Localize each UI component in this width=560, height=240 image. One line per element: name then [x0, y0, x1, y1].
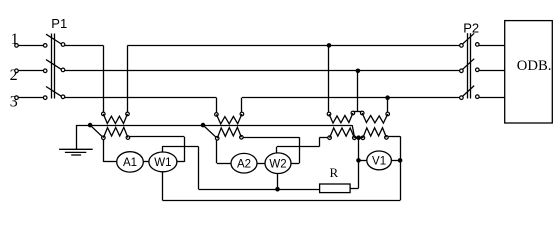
junction V1 right	[398, 158, 403, 163]
resistor R	[320, 184, 351, 193]
wire L3 lead	[18, 97, 43, 99]
wire CT2 sec right bus	[243, 137, 299, 139]
VT-b secondary terminal left	[361, 136, 365, 140]
wire VT-a primary drop	[328, 45, 330, 112]
wire R right	[350, 188, 358, 190]
junction W2 bottom	[275, 187, 280, 192]
wire VT-b sec right out	[388, 136, 400, 138]
wire W1 voltage bus	[162, 146, 199, 148]
wire CT1 primary right drop	[127, 45, 129, 112]
P1 pole3 contact	[61, 95, 65, 99]
ammeter A2	[231, 153, 257, 173]
VT-a secondary winding	[330, 128, 355, 138]
CT1 primary terminal right	[126, 112, 130, 116]
wire W2 right up	[299, 137, 301, 163]
wire W1 right	[177, 161, 185, 163]
wire row3 to CT2	[65, 97, 217, 99]
wire A2-W2	[257, 163, 265, 165]
wire bottom bus	[163, 200, 401, 202]
junction ground bus / CT1	[88, 123, 93, 128]
wire row2 to P2	[65, 70, 460, 72]
wire row1 to P2	[128, 45, 460, 47]
wattmeter W1	[149, 152, 177, 172]
wire W2 bottom down	[277, 174, 279, 190]
P2 pole2 contact	[476, 68, 480, 72]
wire W1 right up	[184, 137, 186, 162]
wire CT1 primary left drop	[103, 45, 105, 112]
wire L2 lead	[18, 70, 43, 72]
wire VT mid primary drop	[357, 71, 359, 112]
wire to VT-a sec left	[319, 137, 328, 139]
load box ODB	[505, 21, 553, 123]
P2 gang bar b	[470, 33, 472, 98]
wire to A1	[103, 161, 116, 163]
VT-a secondary terminal left	[328, 136, 332, 140]
P2 pole3 contact	[476, 95, 480, 99]
P1 gang bar a	[51, 34, 53, 99]
P2 pole1 pivot	[460, 44, 464, 48]
svg-text:W1: W1	[154, 157, 171, 169]
wattmeter W2	[265, 153, 291, 174]
P1 pole2 contact	[61, 68, 65, 72]
P2 gang bar a	[467, 33, 469, 98]
wire ground drop	[76, 125, 78, 149]
junction row3 / VT-b	[385, 95, 390, 100]
wire VT-b primary drop	[387, 98, 389, 113]
wire R right up	[358, 138, 360, 189]
wire bus to R	[199, 189, 320, 191]
CT1 primary winding	[103, 114, 127, 124]
wire L1 lead	[18, 45, 43, 47]
wire CT1 secondary ground tap	[90, 125, 102, 137]
P1 pole2 blade	[46, 60, 61, 70]
terminal L2	[15, 69, 19, 73]
wire W2 voltage rise	[319, 138, 321, 147]
junction V1 left	[356, 158, 361, 163]
VT-b primary terminal left	[360, 111, 364, 115]
wire CT2 primary right drop	[241, 98, 243, 113]
wire CT1 sec right bus	[130, 136, 185, 138]
wire row3 to P2	[242, 97, 460, 99]
terminal L3	[15, 96, 19, 100]
svg-text:P1: P1	[51, 16, 67, 31]
wire CT2 primary left drop	[216, 98, 218, 113]
junction VT secondary mid	[356, 135, 361, 140]
wire ground bus to VT mid	[352, 125, 354, 136]
wire V1 right drop	[400, 136, 402, 200]
wire CT2 sec left down	[216, 140, 218, 163]
wire row1 to CT1	[65, 45, 104, 47]
VT-a primary terminal left	[327, 112, 331, 116]
CT2 secondary winding	[217, 127, 241, 138]
svg-text:R: R	[330, 165, 339, 180]
P2 pole3 blade	[462, 86, 474, 97]
junction row2 / VT mid	[356, 69, 361, 74]
P1 pole3 pivot	[43, 96, 47, 100]
P1 pole1 contact	[61, 43, 65, 47]
CT2 primary terminal left	[215, 113, 219, 117]
VT-b secondary terminal right	[385, 136, 389, 140]
VT-a secondary terminal right	[353, 136, 357, 140]
wire CT1 sec left down	[103, 140, 105, 162]
wire ground bus	[76, 125, 352, 127]
junction ground bus / CT2	[201, 123, 206, 128]
P2 pole3 pivot	[460, 96, 464, 100]
voltmeter V1	[367, 151, 392, 170]
VT-b primary winding	[362, 113, 388, 123]
P2 pole2 blade	[462, 59, 474, 70]
svg-text:A2: A2	[237, 158, 251, 170]
CT1 secondary terminal right	[126, 136, 130, 140]
ammeter A1	[117, 152, 144, 172]
wire to A2	[217, 163, 231, 165]
svg-text:A1: A1	[123, 157, 137, 169]
wire CT2 secondary ground tap	[203, 125, 216, 137]
P2 pole1 blade	[462, 33, 474, 44]
CT1 secondary winding	[103, 127, 128, 137]
CT1 secondary terminal left	[102, 136, 106, 140]
ground	[59, 149, 93, 155]
wire VT secondary tie	[354, 137, 363, 139]
wire W1 voltage drop	[198, 147, 200, 190]
wire W2 voltage bus	[277, 146, 319, 148]
wire VT primary tie bar	[353, 111, 362, 113]
P1 pole1 pivot	[43, 44, 47, 48]
P2 pole2 pivot	[460, 69, 464, 73]
svg-text:P2: P2	[463, 20, 479, 35]
svg-text:W2: W2	[269, 158, 286, 170]
CT2 secondary terminal left	[215, 137, 219, 141]
CT2 primary winding	[216, 114, 242, 124]
P1 pole2 pivot	[43, 69, 47, 73]
CT2 primary terminal right	[240, 112, 244, 116]
svg-text:ODB.: ODB.	[517, 58, 552, 74]
wire W1 bottom down	[162, 172, 164, 201]
CT2 secondary terminal right	[240, 136, 244, 140]
wire W2 top up	[276, 147, 278, 153]
wire W1 top up	[162, 147, 164, 152]
junction row1 / VT-a	[327, 43, 332, 48]
svg-text:V1: V1	[372, 156, 386, 168]
wire A1-W1	[143, 161, 149, 163]
wire V1 left	[359, 160, 367, 162]
wire P2 pole1 to ODB	[479, 45, 505, 47]
VT-b primary terminal right	[386, 112, 390, 116]
CT1 primary terminal left	[102, 112, 106, 116]
P1 pole3 blade	[46, 87, 61, 97]
VT-b secondary winding	[363, 128, 387, 138]
wire V1 right	[391, 160, 400, 162]
wire W2 right	[291, 163, 299, 165]
wire P2 pole3 to ODB	[479, 97, 505, 99]
VT-a primary terminal right	[351, 111, 355, 115]
wire P2 pole2 to ODB	[479, 70, 505, 72]
P1 pole1 blade	[46, 34, 61, 44]
terminal L1	[15, 44, 19, 48]
VT-a primary winding	[329, 113, 353, 123]
P2 pole1 contact	[476, 43, 480, 47]
P1 gang bar b	[54, 34, 56, 99]
